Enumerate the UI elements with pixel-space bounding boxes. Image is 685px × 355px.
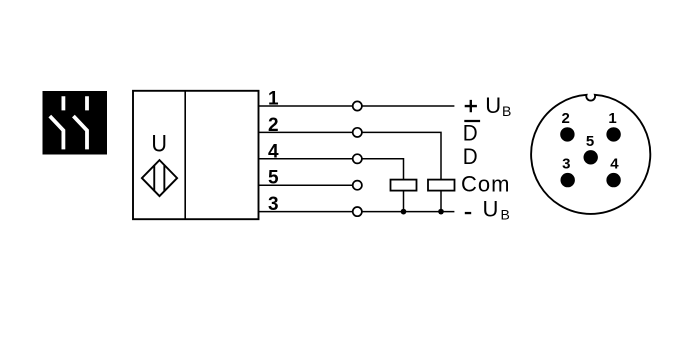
svg-text:B: B: [502, 103, 511, 119]
junction dot A: [401, 209, 407, 215]
label D-bar: [463, 120, 480, 145]
svg-text:1: 1: [608, 110, 616, 127]
svg-text:4: 4: [610, 155, 619, 172]
terminal circle wire 4: [353, 154, 362, 163]
wire 4 (D): [259, 159, 404, 180]
wire 1 (+UB): [259, 105, 455, 107]
transducer symbol: [142, 160, 177, 196]
svg-text:2: 2: [562, 110, 570, 127]
svg-text:U: U: [485, 93, 501, 118]
connector pin 1 dot: [606, 127, 620, 141]
svg-text:Com: Com: [461, 172, 510, 197]
svg-text:B: B: [501, 206, 510, 222]
svg-text:5: 5: [586, 133, 594, 150]
sensor box U1: [133, 91, 259, 219]
resistor R1: [391, 180, 417, 191]
wire R2 to wire 3: [440, 191, 442, 212]
connector face (M12 plug): [531, 95, 650, 214]
terminal circle wire 3: [353, 207, 362, 216]
junction dot B: [438, 209, 444, 215]
terminal circle wire 1: [353, 101, 362, 110]
connector pin 3 dot: [561, 173, 575, 187]
svg-text:U: U: [483, 197, 499, 222]
wire 5 (Com): [259, 184, 353, 186]
connector pin 2 dot: [560, 127, 574, 141]
svg-text:3: 3: [562, 156, 570, 173]
terminal circle wire 2: [353, 128, 362, 137]
wire R1 to wire 3: [403, 191, 405, 212]
svg-text:U: U: [151, 131, 167, 158]
label -UB: [465, 197, 510, 223]
connector pin 5 dot: [584, 150, 598, 164]
svg-text:D: D: [463, 120, 478, 145]
wire 3 (-UB): [259, 211, 455, 213]
switching output icon: [43, 91, 108, 155]
connector pin 4 dot: [606, 173, 620, 187]
svg-text:D: D: [463, 144, 478, 169]
label +UB: [465, 93, 512, 119]
terminal circle wire 5: [353, 181, 362, 190]
resistor R2: [428, 180, 455, 191]
wire 2 (D-bar): [259, 132, 442, 179]
